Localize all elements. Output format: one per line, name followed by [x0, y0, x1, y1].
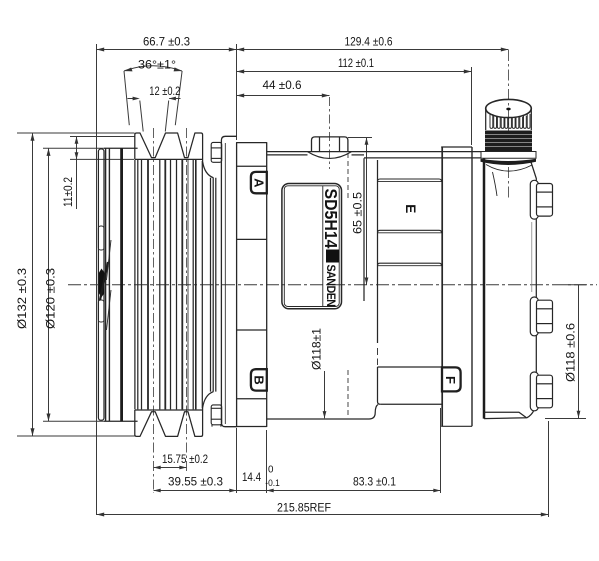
svg-text:215.85REF: 215.85REF [277, 501, 331, 515]
svg-text:B: B [251, 375, 266, 384]
svg-text:Ø118±1: Ø118±1 [310, 328, 324, 370]
svg-text:129.4 ±0.6: 129.4 ±0.6 [345, 35, 393, 49]
svg-text:44 ±0.6: 44 ±0.6 [263, 78, 302, 92]
svg-text:Ø118 ±0.6: Ø118 ±0.6 [564, 323, 578, 382]
svg-text:12 ±0.2: 12 ±0.2 [149, 85, 180, 98]
svg-text:Ø120 ±0.3: Ø120 ±0.3 [44, 268, 58, 329]
svg-text:15.75 ±0.2: 15.75 ±0.2 [162, 452, 208, 466]
svg-text:E: E [403, 204, 418, 213]
svg-text:A: A [251, 178, 266, 188]
svg-text:65 ±0.5: 65 ±0.5 [351, 192, 365, 234]
svg-text:36°±1°: 36°±1° [138, 59, 176, 72]
svg-text:0: 0 [268, 465, 274, 476]
svg-text:SD5H14: SD5H14 [321, 189, 341, 249]
svg-text:F: F [443, 376, 458, 384]
svg-text:11±0.2: 11±0.2 [62, 177, 75, 207]
svg-text:14.4: 14.4 [242, 470, 261, 484]
svg-text:83.3 ±0.1: 83.3 ±0.1 [353, 475, 396, 489]
svg-text:39.55 ±0.3: 39.55 ±0.3 [168, 475, 223, 489]
svg-text:112 ±0.1: 112 ±0.1 [338, 56, 374, 70]
svg-text:-0.1: -0.1 [265, 478, 280, 489]
svg-text:Ø132 ±0.3: Ø132 ±0.3 [15, 268, 29, 329]
svg-text:66.7 ±0.3: 66.7 ±0.3 [143, 35, 190, 49]
svg-text:SANDEN: SANDEN [324, 265, 336, 307]
